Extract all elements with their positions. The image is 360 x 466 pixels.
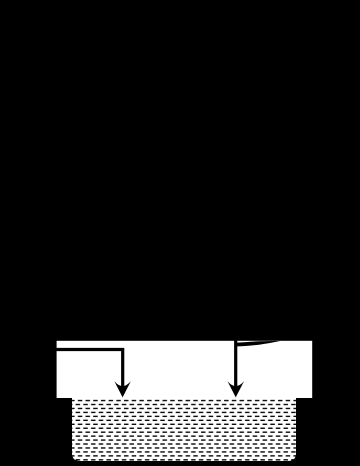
wire left arrow shaft bbox=[57, 350, 123, 392]
wire right arrow shaft bbox=[234, 341, 237, 392]
swoosh curve bbox=[237, 341, 281, 347]
left arrowhead bbox=[114, 381, 131, 397]
white chamber box bbox=[57, 341, 313, 398]
right arrowhead bbox=[227, 381, 244, 397]
tank liquid (dashed water fill) bbox=[72, 398, 296, 461]
